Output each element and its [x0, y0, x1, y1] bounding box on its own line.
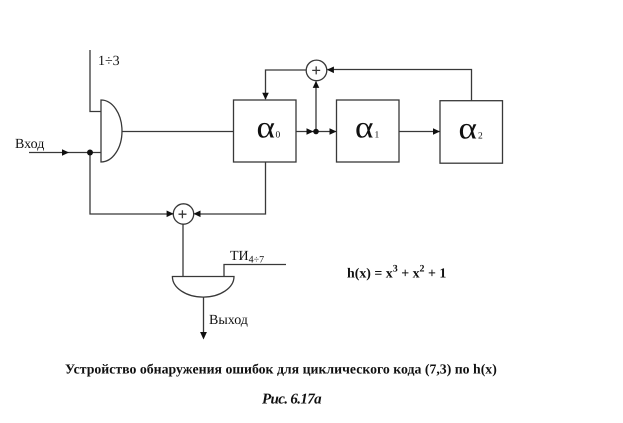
svg-text:Рис. 6.17а: Рис. 6.17а — [262, 392, 322, 408]
svg-text:0: 0 — [276, 131, 281, 141]
svg-text:Вход: Вход — [15, 137, 44, 152]
svg-text:Устройство обнаружения ошибок: Устройство обнаружения ошибок для циклич… — [65, 361, 497, 376]
svg-text:1÷3: 1÷3 — [98, 54, 120, 69]
svg-text:α: α — [459, 111, 478, 146]
svg-text:α: α — [355, 110, 374, 145]
svg-text:α: α — [257, 110, 276, 145]
svg-text:Выход: Выход — [209, 313, 248, 328]
svg-text:2: 2 — [478, 132, 483, 142]
svg-text:1: 1 — [375, 131, 380, 141]
